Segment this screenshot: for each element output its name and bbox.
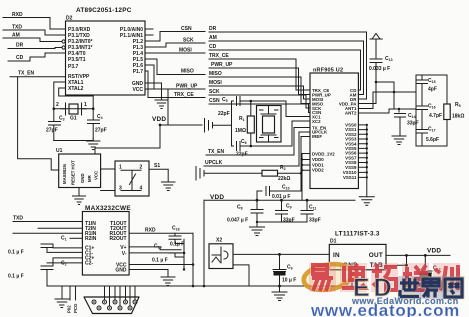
svg-text:R2OUT: R2OUT — [110, 236, 127, 242]
svg-text:C2-: C2- — [85, 261, 93, 267]
svg-text:0.1 µ F: 0.1 µ F — [8, 274, 24, 280]
net MOSI from P1.4 — [145, 48, 205, 54]
net MOSI bus — [209, 80, 310, 99]
capacitor C14 33pF — [394, 92, 419, 136]
svg-text:IN: IN — [333, 252, 340, 259]
ground rotated at R2 — [196, 167, 262, 181]
svg-text:33pF: 33pF — [309, 218, 321, 224]
node RXD label right — [129, 228, 193, 234]
ground rotated mid — [205, 119, 232, 133]
svg-text:UPCLK: UPCLK — [205, 160, 223, 166]
wire U1 bottom stub — [101, 190, 115, 192]
net CD bus — [209, 44, 361, 90]
svg-text:0.047 µ F: 0.047 µ F — [227, 218, 248, 224]
svg-text:LT1117IST-3.3: LT1117IST-3.3 — [335, 231, 380, 238]
svg-text:R2IN: R2IN — [85, 236, 97, 242]
capacitor C12 output 10uF — [419, 255, 441, 284]
red char 4 — [402, 263, 429, 292]
node RXD label — [3, 12, 66, 29]
svg-text:P3.5/T1: P3.5/T1 — [68, 57, 86, 63]
antenna E1 — [370, 34, 382, 60]
wire R1IN long — [13, 232, 82, 234]
ground DB9 left — [55, 286, 69, 308]
svg-text:TRX_CE: TRX_CE — [209, 53, 229, 59]
svg-text:10 µ F: 10 µ F — [282, 278, 296, 284]
wire osc bottom rail — [250, 121, 310, 146]
pin stubs VSS0-VSS11 — [358, 124, 368, 179]
svg-text:18kΩ: 18kΩ — [452, 114, 464, 120]
svg-text:4.7pF: 4.7pF — [429, 113, 442, 119]
svg-text:G1: G1 — [70, 116, 77, 122]
capacitor C10 0.01uF — [257, 185, 301, 201]
svg-text:RXD: RXD — [145, 228, 156, 234]
svg-text:1: 1 — [84, 102, 87, 108]
ground below output cap — [418, 284, 433, 293]
connector P1 DB9 — [84, 297, 139, 314]
svg-text:TX_EN: TX_EN — [18, 71, 35, 77]
wire IREF vertical — [301, 137, 310, 192]
wire R2IN stub — [70, 237, 82, 239]
net MISO from P1.5 — [145, 59, 205, 75]
svg-text:2: 2 — [140, 165, 143, 171]
capacitor C6 22pF — [232, 139, 251, 158]
wire T2IN stub — [38, 227, 82, 229]
svg-text:DR: DR — [16, 43, 24, 49]
node VDD junction — [159, 124, 162, 127]
wire C18/C19 vertical — [183, 239, 185, 269]
svg-text:IREF: IREF — [312, 134, 322, 139]
svg-text:VDD: VDD — [152, 116, 166, 123]
net VDD output — [386, 248, 450, 256]
svg-text:0.1 µ F: 0.1 µ F — [8, 250, 24, 256]
svg-text:TX_EN: TX_EN — [208, 149, 225, 155]
watermark — [302, 261, 465, 317]
wire C13 to VDD_PA — [358, 82, 394, 104]
svg-text:XTAL2: XTAL2 — [68, 86, 84, 92]
svg-text:VDD2: VDD2 — [312, 168, 324, 173]
wire X2 to regulator IN — [233, 253, 329, 255]
ground below MAX3232 — [161, 277, 175, 286]
net AM bus — [209, 35, 364, 95]
svg-text:D1: D1 — [330, 239, 337, 245]
svg-text:CD: CD — [209, 44, 217, 50]
svg-text:OUT: OUT — [369, 252, 383, 259]
node junction right — [92, 107, 95, 110]
svg-text:1MΩ: 1MΩ — [235, 128, 246, 134]
svg-text:V-: V- — [122, 251, 127, 257]
svg-text:CSN: CSN — [209, 98, 220, 104]
svg-text:0.1µ F: 0.1µ F — [170, 241, 184, 247]
svg-text:AM: AM — [209, 35, 217, 41]
inversion bubble INT1 — [62, 46, 65, 49]
svg-text:DR: DR — [209, 26, 217, 32]
svg-text:GND: GND — [80, 173, 85, 183]
ground at MCU GND — [155, 100, 168, 109]
ground below C12 — [272, 292, 287, 301]
net CSN bus — [209, 98, 310, 113]
wire stubs to text — [70, 286, 76, 300]
wire VDD node line — [160, 124, 202, 126]
svg-text:33pF: 33pF — [283, 218, 295, 224]
wire ANT1 — [358, 92, 416, 109]
matching network box — [416, 75, 447, 146]
svg-text:VDD: VDD — [427, 248, 441, 255]
svg-text:27pF: 27pF — [95, 128, 107, 134]
capacitor C8 0.047uF — [227, 200, 263, 227]
wire bottom gnd rail — [47, 285, 352, 287]
wire U1 MR to S1 — [101, 168, 115, 170]
wire regulator GND down — [351, 270, 353, 286]
node AM label — [3, 33, 62, 42]
capacitor C4 27pF — [88, 109, 107, 139]
svg-text:P02: P02 — [67, 305, 72, 313]
svg-text:VSS11: VSS11 — [343, 175, 357, 180]
svg-text:0.1 µ F: 0.1 µ F — [152, 258, 168, 264]
capacitor C13 0.033uF — [369, 56, 393, 82]
svg-text:S1: S1 — [154, 163, 160, 169]
wire VDD pins vertical — [302, 154, 310, 201]
svg-text:AT89C2051-12PC: AT89C2051-12PC — [76, 7, 132, 14]
ground below U2 — [359, 197, 374, 206]
net TRX_CE bus — [209, 53, 310, 90]
capacitor C15 4pF — [417, 75, 437, 106]
svg-text:U1: U1 — [56, 148, 63, 154]
wire cap bottoms — [257, 221, 307, 223]
wire DB9 pin stubs — [105, 286, 136, 306]
wire XTAL2 — [59, 88, 93, 109]
wire VDD down to U1 VCC — [95, 125, 160, 154]
capacitor C2 0.1uF — [41, 258, 82, 286]
inversion bubble INT0 — [62, 40, 65, 43]
capacitor C17 5.6pF — [417, 127, 440, 147]
svg-text:PCG: PCG — [73, 303, 78, 313]
capacitor C9 33pF — [276, 200, 295, 223]
wire TX_EN loop to U1 reset — [18, 77, 59, 170]
regulator D1 LT1117IST-3.3 — [329, 231, 386, 270]
transceiver U MAX3232CWE — [82, 205, 131, 275]
svg-text:MR: MR — [87, 174, 92, 182]
net SCK bus — [209, 89, 310, 108]
wire S1 to ground — [149, 169, 168, 182]
svg-text:MISO: MISO — [181, 69, 194, 75]
svg-text:0.033 µ F: 0.033 µ F — [369, 66, 390, 72]
wire XTAL1 — [54, 82, 66, 109]
net MISO bus — [209, 71, 310, 104]
svg-text:4pF: 4pF — [428, 87, 437, 93]
svg-text:27pF: 27pF — [46, 128, 58, 134]
net DR bus — [209, 26, 367, 99]
connector X2 power jack — [209, 238, 233, 269]
svg-text:GND: GND — [115, 268, 127, 274]
wire C3 to ground — [54, 140, 93, 142]
svg-text:MAX882Is: MAX882Is — [62, 163, 67, 184]
net TX_EN to U2 — [206, 128, 310, 156]
wire TAB to OUT — [386, 255, 407, 265]
wire osc top rail — [250, 101, 310, 117]
wire ANT2 — [358, 109, 416, 113]
ground below C14 — [392, 136, 406, 145]
capacitor C1 0.1uF — [8, 236, 82, 256]
capacitor C19 0.1uF — [129, 244, 184, 264]
wire VCC to vertical A — [129, 264, 193, 266]
svg-text:VDD0: VDD0 — [312, 157, 324, 162]
net UPCLK to U2 — [204, 132, 310, 166]
capacitor C12 10uF input — [273, 254, 296, 292]
vertical B rail drop — [203, 200, 205, 286]
ground right of S1 — [162, 182, 176, 191]
node TXD label — [3, 25, 66, 36]
svg-text:TXD: TXD — [13, 216, 23, 222]
navy char jie — [420, 276, 443, 299]
net SCK from P1.3 — [145, 38, 205, 48]
wire P1.0 stub — [145, 28, 153, 30]
capacitor C5 22pF — [218, 97, 250, 118]
net PWR_UP bus — [209, 62, 310, 95]
svg-text:RESET HOT: RESET HOT — [71, 160, 76, 185]
svg-text:XC2: XC2 — [312, 119, 321, 124]
svg-text:VCC: VCC — [94, 171, 99, 180]
node DR label — [8, 43, 62, 49]
wire P1.1 stub — [145, 34, 153, 36]
transceiver U2 nRF905 — [310, 68, 358, 189]
crystal G2 module — [257, 106, 282, 143]
red char 1 — [309, 263, 336, 292]
svg-text:CD: CD — [16, 55, 24, 61]
resistor R5 18k — [422, 102, 464, 146]
svg-text:DVDD_1V2: DVDD_1V2 — [312, 152, 335, 157]
navy char shi — [398, 276, 421, 299]
wire V- to vertical — [129, 252, 184, 254]
navy char wang — [442, 276, 465, 299]
node TXD label lower — [13, 216, 82, 224]
svg-text:5.6pF: 5.6pF — [426, 137, 439, 143]
net VDD rail — [204, 194, 355, 201]
svg-text:33pF: 33pF — [407, 121, 419, 127]
resistor R2 22k — [262, 165, 301, 182]
svg-text:2: 2 — [56, 102, 59, 108]
svg-text:X2: X2 — [216, 238, 222, 244]
svg-text:1: 1 — [119, 165, 122, 171]
crystal G1 — [56, 102, 103, 122]
node CD label — [8, 53, 66, 61]
ground below C4 — [87, 139, 100, 150]
net PWR_UP from P1.6 — [145, 65, 205, 90]
capacitor C16 4.7pF — [417, 104, 443, 130]
switch S1 — [115, 161, 160, 196]
capacitor C18 0.1uF — [169, 226, 184, 248]
wire VCC pin to VDD node — [145, 89, 168, 125]
ground below U1 — [73, 188, 86, 205]
svg-text:ANT2: ANT2 — [345, 110, 357, 115]
resistor R1 1M — [235, 101, 254, 146]
svg-text:VCC: VCC — [132, 87, 143, 93]
node junction left — [53, 107, 56, 110]
capacitor C11 33pF — [301, 200, 321, 223]
svg-text:www.edatop.com: www.edatop.com — [310, 301, 460, 317]
ground below C8 — [250, 227, 265, 236]
svg-text:22pF: 22pF — [218, 111, 230, 117]
node TX_EN label — [10, 71, 66, 77]
svg-text:P1.7: P1.7 — [133, 69, 144, 75]
svg-text:MISO: MISO — [209, 71, 222, 77]
wire X2 low pin — [233, 265, 249, 286]
svg-text:MOSI: MOSI — [209, 80, 222, 86]
vertical A — [192, 233, 194, 286]
microcontroller U/D2 AT89C2051-12PC — [66, 7, 146, 95]
svg-text:22kΩ: 22kΩ — [278, 176, 290, 182]
net TRX_CE from P1.7 — [145, 71, 205, 98]
svg-text:P3.7: P3.7 — [68, 64, 79, 70]
supervisor U1 MAX8821 — [56, 148, 101, 188]
svg-text:SCK: SCK — [209, 89, 220, 95]
svg-text:PWR_UP: PWR_UP — [211, 62, 233, 68]
wire osc left vertical — [231, 101, 233, 146]
wire crystal net — [54, 108, 93, 110]
wire GND pin to ground — [145, 83, 162, 100]
capacitor C3 27pF — [46, 109, 61, 141]
wire GND to ground — [129, 270, 168, 278]
wire VSS common — [366, 125, 368, 197]
net CSN from P1.2 — [145, 26, 205, 41]
red char 5 — [433, 263, 460, 292]
red char 2 — [340, 263, 367, 292]
red char 3 — [371, 263, 398, 292]
